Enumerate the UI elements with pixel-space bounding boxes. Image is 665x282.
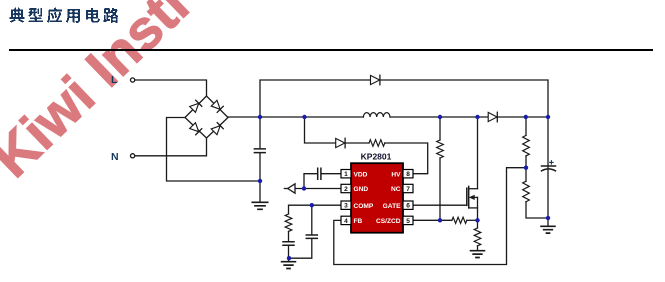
wire CS from pin5 [414, 219, 452, 221]
resistor R2 startup [437, 117, 444, 220]
chip U1 KP2801 body [351, 163, 403, 233]
wire comp pin3 [289, 205, 342, 214]
pin 6 box [403, 201, 413, 209]
resistor R7 divider bottom [523, 168, 548, 218]
diode D2 third rail [336, 138, 345, 148]
pin 1 box [341, 170, 351, 178]
pin 3 box [341, 201, 351, 209]
capacitor C5 output [542, 117, 556, 218]
wire bridge minus to bottom rail [167, 118, 261, 182]
diode D1 top rail [371, 75, 380, 85]
capacitor C2 vdd [304, 168, 341, 188]
pin 8 box [403, 170, 413, 178]
ground output [541, 218, 555, 233]
junction dots [258, 115, 550, 261]
wire second rail right [497, 116, 548, 118]
wire second rail middle [390, 116, 488, 118]
labels [111, 74, 410, 225]
ground arrow gnd pin [284, 184, 295, 193]
pin 2 box [341, 184, 351, 192]
wire third rail to resistor [345, 142, 369, 144]
node L terminal [131, 78, 135, 82]
node N terminal [131, 154, 135, 158]
wire third rail from node [305, 117, 336, 143]
wire top rail left [260, 80, 371, 117]
transistor Q1 mosfet [467, 186, 478, 220]
wire to HV pin8 [385, 143, 428, 174]
pin 7 box [403, 184, 413, 192]
pin 5 box [403, 216, 413, 224]
capacitor C3 comp [283, 231, 294, 258]
capacitor C4 comp parallel [289, 205, 317, 258]
pin 4 box [341, 216, 351, 224]
resistor R4 sense [474, 220, 481, 250]
ground sense [471, 251, 485, 258]
inductor L1 [363, 113, 390, 117]
rule [9, 49, 653, 51]
resistor R1 third rail [369, 140, 385, 147]
capacitor C1 bulk [254, 117, 265, 181]
wire L to bridge top [135, 80, 207, 96]
wire FB route [334, 168, 526, 265]
diode D3 second rail [488, 112, 497, 122]
ground main [252, 181, 267, 209]
wire gate from pin6 [414, 204, 467, 206]
resistor R5 comp [285, 214, 292, 231]
ground comp [282, 258, 296, 268]
wire gnd pin2 [295, 188, 341, 190]
wire top rail right [380, 80, 548, 117]
wire bridge plus / second rail left [228, 116, 363, 118]
resistor R6 divider top [523, 117, 530, 168]
resistor R3 CS [452, 217, 467, 223]
wire CS to source node [467, 219, 478, 221]
watermark Kiwi Instr [0, 0, 205, 190]
wire N to bridge bottom [135, 138, 207, 156]
wire mosfet drain [477, 117, 479, 189]
bridge rectifier BR1 [185, 96, 228, 138]
